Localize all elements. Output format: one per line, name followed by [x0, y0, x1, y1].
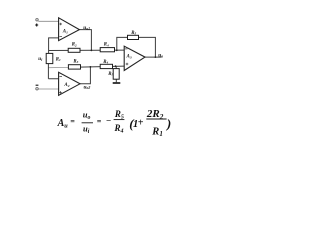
op-amp A2 — [59, 72, 80, 95]
label + polarity of input — [35, 24, 38, 27]
input terminal + (circle) — [36, 19, 38, 21]
wire A1 inverting input L — [49, 38, 59, 54]
svg-text:A2: A2 — [63, 83, 69, 88]
wire A3 output — [145, 56, 161, 58]
svg-text:+: + — [138, 117, 144, 128]
resistor R1 (vertical) — [46, 53, 61, 63]
wire - input terminal to A2 — [38, 88, 58, 90]
wire + input terminal to A1 — [38, 20, 58, 22]
op-amp A1 — [59, 18, 80, 41]
node output junction — [155, 56, 157, 58]
node A1out junction — [91, 50, 93, 52]
svg-text:R5: R5 — [131, 31, 136, 36]
svg-text:R5: R5 — [108, 72, 113, 77]
wire A2 output up to row2 — [80, 67, 90, 84]
wire row1 — [49, 49, 125, 51]
formula Au = uo/ui = -R5/R4 (1+2R2/R1) — [57, 108, 172, 138]
svg-text:R3: R3 — [73, 59, 78, 64]
wire R5g to ground — [115, 79, 117, 82]
svg-text:=: = — [70, 117, 75, 126]
svg-text:R4: R4 — [103, 60, 108, 65]
wire row2 left (faint) — [48, 66, 68, 68]
ground — [113, 82, 121, 84]
resistor R2 — [68, 43, 80, 53]
svg-text:R4: R4 — [104, 43, 109, 48]
resistor R3 — [68, 59, 80, 69]
op-amp A3 — [124, 46, 145, 70]
resistor R4 (upper) — [100, 43, 114, 52]
svg-text:A1: A1 — [62, 29, 68, 34]
label - polarity of input — [36, 84, 39, 86]
input terminal - (circle) — [36, 88, 38, 90]
svg-text:): ) — [166, 116, 171, 131]
node A2out junction — [90, 66, 92, 68]
wire feedback loop of A3 — [117, 37, 156, 57]
svg-text:−: − — [106, 116, 111, 126]
resistor R4 (lower) — [100, 60, 112, 69]
node feedback tap junction — [116, 49, 118, 51]
wire A1 output down to row1 — [79, 30, 91, 51]
svg-text:R2: R2 — [72, 43, 77, 48]
resistor R5 (to ground, vertical) — [108, 69, 119, 80]
wire R1 bottom to A2 inverting input — [48, 64, 58, 79]
svg-text:R1: R1 — [56, 57, 61, 62]
wire row2 — [68, 66, 124, 67]
resistor R5 (feedback) — [128, 31, 139, 40]
svg-text:=: = — [97, 117, 102, 126]
node R5g tap junction — [115, 65, 117, 67]
svg-text:A3: A3 — [126, 54, 132, 59]
wire R5g tap stub — [115, 66, 117, 68]
